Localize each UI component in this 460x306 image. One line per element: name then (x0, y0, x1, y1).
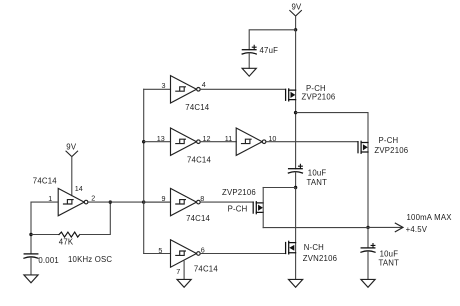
svg-text:ZVP2106: ZVP2106 (302, 93, 336, 102)
svg-text:+4.5V: +4.5V (406, 225, 428, 234)
wire node B rail down to N-FET and ground (295, 188, 297, 280)
ground (osc cap) (24, 275, 38, 283)
svg-text:5: 5 (158, 246, 162, 255)
wire row4 output to Q4 gate (200, 253, 285, 255)
capacitor C 10uF TANT (flying) (288, 164, 327, 187)
svg-text:47K: 47K (59, 238, 74, 247)
svg-text:13: 13 (157, 134, 165, 143)
op-amp U1E 74C14 row3 inverter (171, 188, 211, 223)
svg-text:9V: 9V (292, 3, 303, 12)
svg-text:TANT: TANT (307, 178, 328, 187)
wire C2 to ground (367, 251, 369, 279)
svg-text:P-CH: P-CH (379, 136, 399, 145)
node B junction (294, 186, 297, 189)
wire input rail vertical (143, 89, 145, 253)
op-amp U1F 74C14 row4 inverter (171, 240, 219, 274)
wire row3 output to Q3 gate (200, 201, 253, 203)
svg-text:47uF: 47uF (260, 46, 279, 55)
wire feedback row left (31, 234, 59, 236)
wire node A to right rail (296, 113, 368, 228)
wire row2 middle (200, 141, 236, 143)
svg-text:TANT: TANT (379, 258, 400, 267)
svg-text:9: 9 (162, 194, 166, 203)
op-amp U1D 74C14 row2 second inverter (236, 128, 266, 155)
wire to 47uF (249, 30, 295, 50)
svg-text:8: 8 (200, 194, 204, 203)
wire output arrow (368, 226, 402, 228)
svg-text:74C14: 74C14 (186, 214, 210, 223)
svg-text:2: 2 (91, 193, 95, 202)
svg-text:ZVP2106: ZVP2106 (222, 188, 256, 197)
wire Q3 top to node B (263, 187, 295, 189)
wire pin 7 to ground (183, 261, 185, 279)
ground (47uF) (242, 68, 256, 76)
ground (N-channel source) (289, 279, 303, 287)
wire row1 input (144, 88, 171, 90)
ground (pin 7) (177, 279, 191, 287)
transistor Q2 P-CH ZVP2106 (358, 136, 408, 155)
wire Q3 body rail (262, 188, 264, 228)
node input rail junction row3 (142, 200, 145, 203)
wire osc output to row3 input (89, 201, 171, 203)
node A junction (294, 111, 297, 114)
resistor 47K (59, 232, 80, 247)
op-amp U1A 74C14 oscillator inverter (33, 177, 88, 216)
svg-text:10uF: 10uF (308, 169, 327, 178)
svg-text:9V: 9V (66, 143, 77, 152)
svg-text:10uF: 10uF (380, 250, 399, 259)
svg-text:4: 4 (202, 80, 206, 89)
transistor Q1 P-CH ZVP2106 (286, 84, 336, 101)
svg-text:74C14: 74C14 (33, 177, 57, 186)
wire cap to node B (295, 172, 297, 188)
node feedback left junction (29, 233, 32, 236)
op-amp U1B 74C14 row1 inverter (171, 76, 210, 112)
wire row4 input (144, 253, 171, 255)
wire left rail down (30, 202, 32, 254)
svg-text:74C14: 74C14 (194, 264, 218, 273)
svg-text:0.001: 0.001 (38, 256, 59, 265)
wire pin14 (71, 157, 73, 196)
capacitor C2 10uF TANT (output) (361, 244, 399, 268)
node input rail junction row2 (142, 140, 145, 143)
wire feedback row right (80, 202, 111, 234)
node top junction (294, 28, 297, 31)
svg-text:100mA MAX: 100mA MAX (407, 213, 453, 222)
svg-text:N-CH: N-CH (304, 243, 324, 252)
svg-text:3: 3 (162, 81, 166, 90)
wire 0.001 to ground (30, 257, 32, 275)
wire row1 output to Q1 gate (200, 88, 285, 90)
power 9V osc (66, 143, 78, 157)
svg-text:10KHz OSC: 10KHz OSC (68, 255, 112, 264)
svg-text:ZVP2106: ZVP2106 (374, 146, 408, 155)
wire output junction down to C2 (367, 227, 369, 248)
wire pin 1 input (31, 201, 58, 203)
svg-text:P-CH: P-CH (228, 205, 248, 214)
node output junction (366, 226, 369, 229)
node feedback top junction (109, 200, 112, 203)
svg-text:74C14: 74C14 (187, 155, 211, 164)
svg-text:ZVN2106: ZVN2106 (303, 254, 337, 263)
wire 9V stem (295, 16, 297, 30)
wire row2 input (144, 141, 171, 143)
transistor Q3 P-CH ZVP2106 (222, 188, 263, 214)
op-amp U1C 74C14 row2 first inverter (171, 128, 212, 164)
capacitor 0.001 (24, 254, 59, 265)
wire Q3 bottom to output node (263, 227, 368, 229)
svg-text:11: 11 (225, 134, 232, 143)
transistor Q4 N-CH ZVN2106 (286, 241, 338, 263)
power 9V top (290, 3, 302, 16)
svg-text:74C14: 74C14 (185, 103, 209, 112)
wire 47uF to ground (248, 53, 250, 69)
ground (output cap) (361, 279, 375, 287)
wire row3 input (144, 201, 171, 203)
wire row2 output to Q2 gate (267, 141, 358, 143)
capacitor 47uF (242, 45, 278, 55)
svg-text:1: 1 (48, 194, 52, 203)
wire rail 9V down (x=295.6) (295, 30, 297, 169)
svg-text:14: 14 (75, 184, 83, 193)
output arrowhead +4.5V (395, 213, 452, 234)
svg-text:7: 7 (176, 267, 180, 276)
